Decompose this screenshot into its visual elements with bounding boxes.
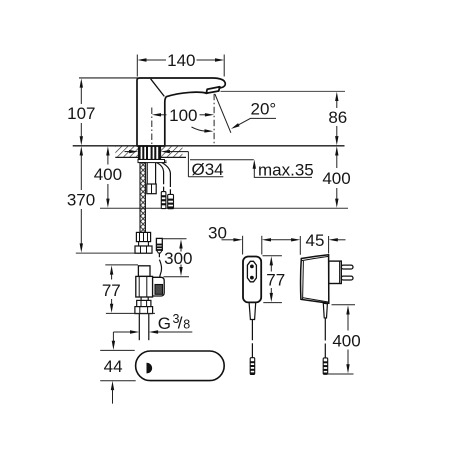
svg-text:100: 100 bbox=[169, 106, 197, 125]
rod nut bbox=[135, 246, 152, 253]
dimension 400 adapter cable bbox=[327, 305, 361, 374]
leader from G3/8 down to oval bbox=[112, 332, 115, 350]
faucet body outline bbox=[137, 78, 225, 146]
dimension 140 bbox=[137, 51, 224, 77]
svg-text:140: 140 bbox=[167, 51, 195, 70]
adapter cable connector bbox=[323, 358, 328, 375]
dimension 30 (control unit width) bbox=[208, 223, 292, 254]
control unit front view bbox=[243, 257, 261, 303]
rod neck bbox=[139, 242, 149, 246]
washer under deck bbox=[138, 160, 167, 163]
valve level reference line y253 bbox=[76, 252, 151, 254]
control unit cable connector bbox=[250, 358, 255, 375]
svg-text:400: 400 bbox=[94, 165, 122, 184]
dimension D34 arrows bbox=[125, 150, 224, 179]
stream 20deg line bbox=[215, 94, 231, 133]
adapter strain relief bbox=[323, 303, 327, 318]
dimension 44 bbox=[100, 350, 136, 403]
svg-text:77: 77 bbox=[266, 271, 285, 290]
dimension 77 valve bbox=[102, 265, 155, 314]
underside reference line for max35 bbox=[190, 159, 254, 161]
sensor cable to valve bbox=[159, 253, 161, 277]
dimension 300 bbox=[163, 239, 193, 277]
plug pin bottom bbox=[341, 276, 353, 280]
adapter cable bbox=[324, 318, 326, 358]
svg-text:8: 8 bbox=[183, 318, 190, 332]
svg-text:370: 370 bbox=[67, 191, 95, 210]
svg-text:max.35: max.35 bbox=[258, 160, 314, 179]
svg-text:400: 400 bbox=[332, 331, 360, 350]
dimension 400 right bbox=[322, 146, 350, 208]
dimension 370 bbox=[67, 146, 95, 252]
valve nut 2 bbox=[135, 307, 153, 314]
cable A bbox=[157, 163, 164, 192]
svg-text:/: / bbox=[178, 314, 183, 333]
valve body bbox=[136, 276, 153, 297]
svg-text:G: G bbox=[158, 314, 171, 333]
svg-text:400: 400 bbox=[322, 169, 350, 188]
valve neck bbox=[141, 297, 148, 300]
solenoid coil bbox=[153, 277, 165, 296]
label G 3/8 bbox=[113, 312, 192, 334]
label 20deg with leader bbox=[231, 100, 276, 129]
svg-text:44: 44 bbox=[104, 357, 123, 376]
hose end fitting bbox=[147, 184, 156, 194]
label max.35 bbox=[253, 160, 314, 180]
rod collar bbox=[136, 232, 150, 241]
cable B bbox=[162, 163, 171, 195]
top reference line y78 bbox=[79, 77, 138, 79]
base plate oval top view bbox=[136, 351, 225, 381]
dimension 77 control unit bbox=[263, 256, 286, 303]
svg-text:20°: 20° bbox=[251, 100, 277, 119]
lower reference line y208 bbox=[100, 207, 348, 209]
svg-text:45: 45 bbox=[306, 231, 325, 250]
dimension 100 bbox=[152, 106, 214, 125]
supply hose tube bbox=[147, 163, 155, 184]
dimension 45 (adapter width) bbox=[291, 231, 345, 255]
solenoid valve: top cap bbox=[138, 266, 150, 277]
connector B bbox=[168, 194, 174, 208]
aerator outlet bbox=[206, 87, 220, 94]
supply pipe below valve bbox=[139, 314, 149, 341]
svg-text:86: 86 bbox=[328, 108, 347, 127]
spout level reference line y91.4 bbox=[221, 90, 346, 92]
dimension 86 bbox=[328, 92, 347, 146]
valve nut 1 bbox=[137, 300, 151, 306]
plug pin top bbox=[341, 265, 353, 269]
dimension 400 left bbox=[94, 146, 122, 208]
dimension 107 bbox=[67, 78, 95, 145]
svg-text:107: 107 bbox=[67, 104, 95, 123]
control unit strain relief bbox=[249, 303, 256, 320]
svg-text:Ø34: Ø34 bbox=[192, 160, 224, 179]
connector A bbox=[161, 192, 166, 209]
faucet shank through deck bbox=[138, 146, 160, 159]
countertop deck section bbox=[73, 146, 345, 158]
control unit cable bbox=[251, 320, 253, 358]
svg-text:77: 77 bbox=[102, 281, 121, 300]
power adapter body bbox=[301, 255, 329, 303]
faucet centerline bbox=[151, 108, 153, 147]
stream centerline bbox=[213, 94, 215, 146]
adapter plug block bbox=[329, 261, 342, 283]
angle arc with arrow bbox=[192, 127, 214, 133]
svg-text:300: 300 bbox=[164, 249, 192, 268]
threaded rod bbox=[140, 163, 145, 233]
sensor cable connector (hanging) bbox=[156, 238, 162, 253]
svg-text:30: 30 bbox=[208, 223, 227, 242]
